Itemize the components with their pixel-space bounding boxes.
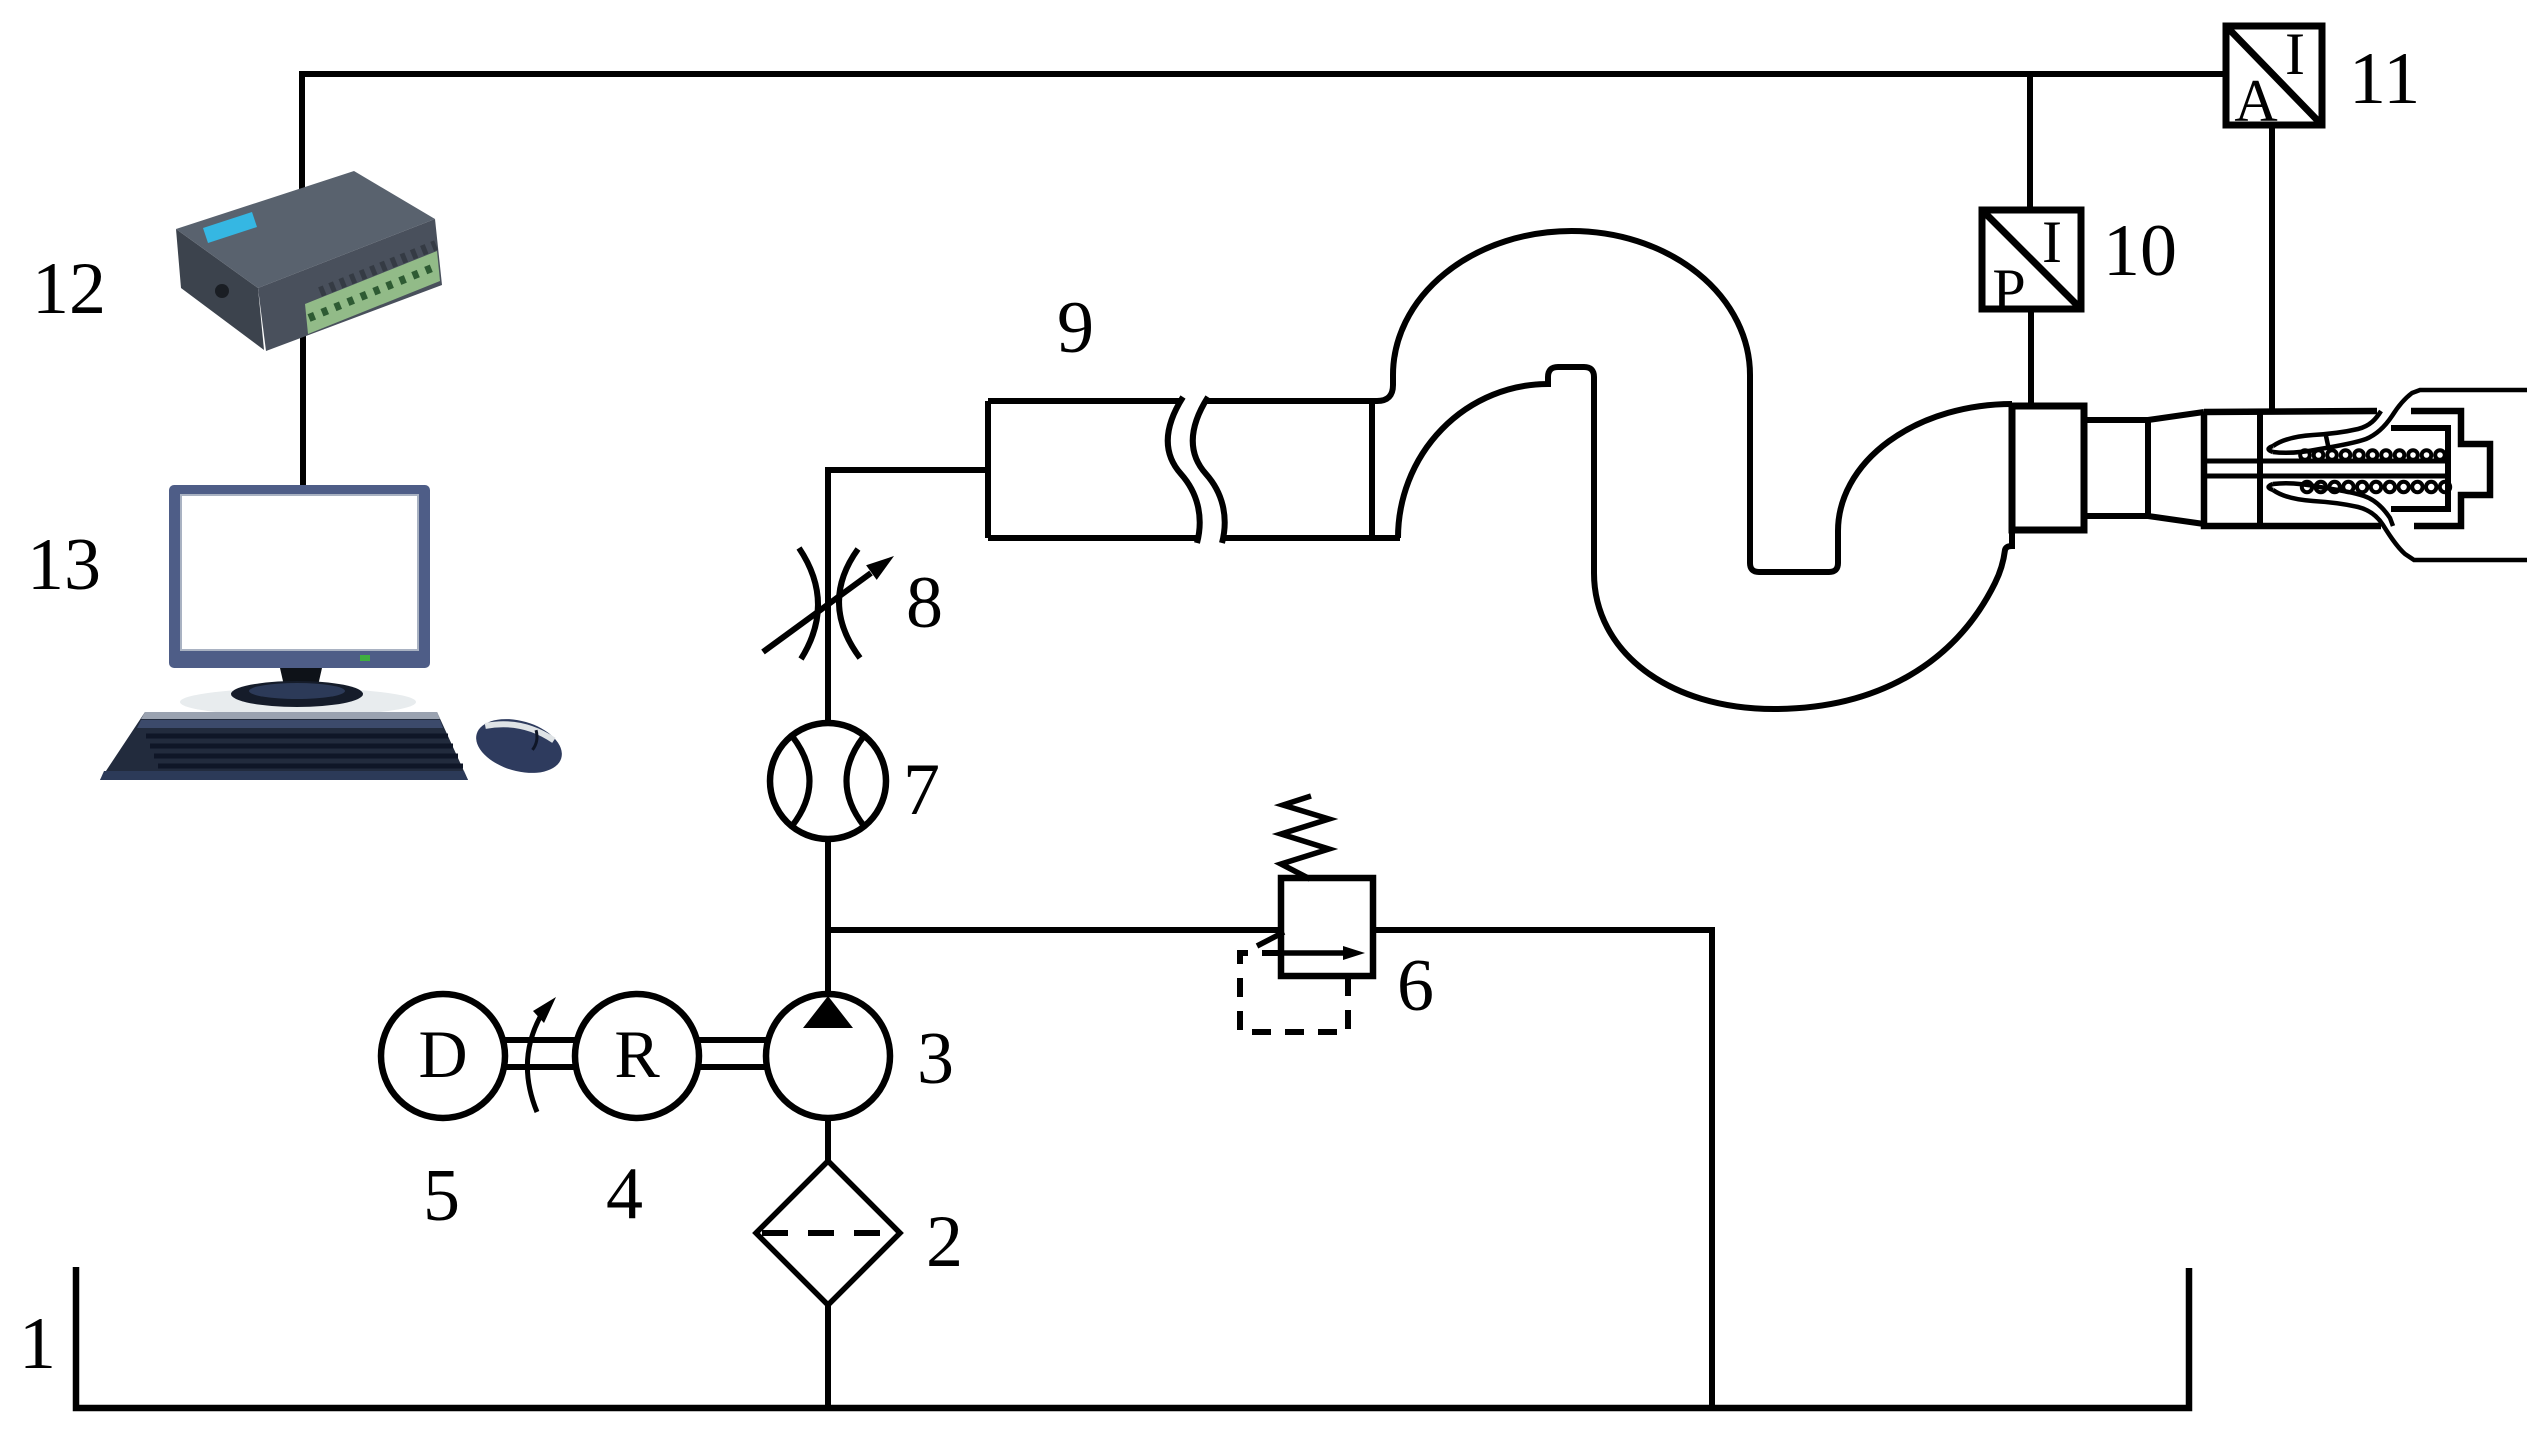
wire: signal line from DAQ module 12 to transducer 11 (top)	[302, 74, 2226, 190]
flow meter 7: circle	[770, 723, 886, 839]
flow meter 7: left inner arc	[792, 736, 810, 826]
monitor power LED	[360, 655, 370, 661]
atomizer: lower tongue tip	[2269, 484, 2274, 490]
throttle valve 8: left arc	[799, 548, 818, 659]
coupling 4: circle R	[575, 994, 699, 1118]
pipe 9: break wave left	[1168, 397, 1200, 543]
pipe 9: serpentine inner wall (bottom of hump, finger, big bottom arc)	[1398, 367, 2012, 709]
monitor base inner	[249, 683, 345, 699]
mouse	[470, 710, 568, 782]
svg-text:R: R	[614, 1016, 660, 1092]
pipe 9: joint line	[1369, 401, 1375, 538]
svg-text:A: A	[2234, 68, 2277, 134]
P/I transducer 10	[1982, 210, 2081, 309]
atomizer: lower spring coils	[2302, 482, 2450, 492]
pipe 9: straight section bottom wall	[988, 535, 1400, 541]
svg-text:I: I	[2285, 21, 2305, 87]
atomizer: inner chamber	[2391, 428, 2448, 509]
filter 2: diamond	[756, 1161, 900, 1305]
wire: transducer 10 down to pipe flange	[2028, 309, 2034, 406]
monitor frame	[169, 485, 430, 668]
pipe 9: left end cap	[985, 401, 991, 538]
pipe 9: straight section top wall	[988, 398, 1377, 404]
atomizer: lower tongue bottom edge and lower lead wire	[2273, 490, 2527, 560]
svg-text:5: 5	[423, 1155, 460, 1237]
filter 2: dashed mesh line	[762, 1230, 894, 1236]
svg-text:4: 4	[606, 1153, 643, 1235]
wire: branch to relief valve 6	[828, 927, 1281, 933]
wire: relief valve 6 to tank	[1373, 930, 1712, 1406]
svg-text:11: 11	[2349, 38, 2420, 120]
keyboard bottom band	[100, 771, 468, 780]
throttle valve 8: adjustment arrow	[763, 573, 871, 652]
pump 3: circle	[766, 994, 890, 1118]
DAQ module 12 (photo)	[176, 171, 442, 351]
svg-text:10: 10	[2103, 210, 2177, 292]
monitor shadow	[180, 688, 416, 716]
DAQ terminal strip	[305, 251, 440, 334]
atomizer: cone bottom	[2148, 516, 2204, 524]
shaft: motor 5 to coupling 4 (double line)	[505, 1040, 575, 1067]
svg-text:12: 12	[32, 248, 106, 330]
wire: pump 3 to filter 2	[825, 1118, 831, 1161]
rotation direction arrow between 5 and 4	[527, 1007, 546, 1112]
wire: branch from top line down to P/I transducer 10	[2027, 74, 2033, 210]
atomizer: neck top wall	[2084, 417, 2148, 423]
atomizer: upper tongue top edge	[2273, 411, 2381, 446]
relief valve 6: spring	[1281, 796, 1329, 879]
atomizer: needle rod bottom	[2204, 474, 2446, 479]
relief valve 6: internal arrow line	[1284, 950, 1346, 956]
keyboard body	[100, 712, 468, 780]
svg-text:I: I	[2042, 209, 2062, 275]
shaft: coupling 4 to pump 3 (double line)	[699, 1040, 766, 1067]
atomizer: neck bottom wall	[2084, 513, 2148, 519]
wire: filter 2 to tank 1	[825, 1305, 831, 1406]
atomizer: upper tongue bottom edge and upper lead wire	[2273, 390, 2527, 453]
relief valve 6: internal arrow head	[1343, 946, 1365, 960]
DAQ top face	[176, 171, 435, 288]
wire: flow meter 7 to pump 3	[825, 837, 831, 994]
tank 1	[76, 1267, 2189, 1408]
monitor screen	[181, 495, 418, 650]
throttle valve 8: arrow head	[866, 556, 894, 580]
DAQ front face	[258, 219, 442, 351]
monitor base	[231, 681, 363, 707]
wire: transducer 11 down to atomizer body	[2269, 125, 2275, 411]
atomizer: upper spring coils	[2300, 450, 2445, 460]
wire: DAQ module 12 down to computer 13	[300, 334, 306, 487]
svg-text:8: 8	[906, 562, 943, 644]
rotation arrow head	[533, 997, 556, 1023]
atomizer: lower tongue top edge	[2273, 483, 2393, 526]
svg-text:P: P	[1992, 257, 2025, 323]
svg-text:7: 7	[903, 749, 940, 831]
DAQ terminal slots	[309, 266, 437, 318]
computer 13 (photo)	[100, 485, 568, 782]
A/I transducer 11	[2226, 26, 2322, 125]
svg-text:2: 2	[926, 1201, 963, 1283]
svg-text:6: 6	[1397, 945, 1434, 1027]
relief valve 6: body square	[1281, 878, 1373, 976]
wire: throttle valve 8 to pipe inlet	[828, 470, 988, 725]
pipe 9: break wave right	[1193, 397, 1225, 543]
svg-text:1: 1	[19, 1303, 56, 1385]
monitor stand neck	[280, 668, 322, 690]
DAQ left face	[176, 229, 264, 350]
DAQ upper pin row	[320, 245, 436, 292]
flow meter 7: right inner arc	[847, 736, 865, 826]
svg-text:9: 9	[1057, 287, 1094, 369]
DAQ cyan label	[203, 212, 257, 243]
keyboard top ridge	[141, 712, 440, 719]
atomizer: needle rod top	[2204, 459, 2446, 464]
relief valve 6: pilot diagonal	[1257, 932, 1284, 946]
svg-text:13: 13	[27, 524, 101, 606]
pump 3: outlet triangle	[803, 996, 853, 1028]
throttle valve 8: right arc	[839, 549, 860, 658]
atomizer: upper tongue tip	[2269, 446, 2274, 452]
atomizer: needle tick	[2326, 436, 2329, 450]
svg-text:3: 3	[917, 1018, 954, 1100]
keyboard key rows	[146, 736, 463, 766]
DAQ button	[215, 284, 229, 298]
relief valve 6: dashed pilot box	[1240, 953, 1348, 1032]
atomizer: cone top	[2148, 412, 2204, 420]
atomizer: flange	[2012, 406, 2084, 530]
svg-text:D: D	[418, 1016, 467, 1092]
atomizer: body joint line	[2257, 411, 2263, 526]
atomizer: neck joint	[2145, 420, 2151, 516]
motor 5: circle D	[381, 994, 505, 1118]
atomizer: body outline with stepped tip	[2204, 411, 2490, 526]
pipe 9: serpentine outer wall (hump over the top, inner of bottom U, rise to flange)	[1377, 231, 2012, 572]
keyboard upper row tint	[137, 720, 443, 728]
